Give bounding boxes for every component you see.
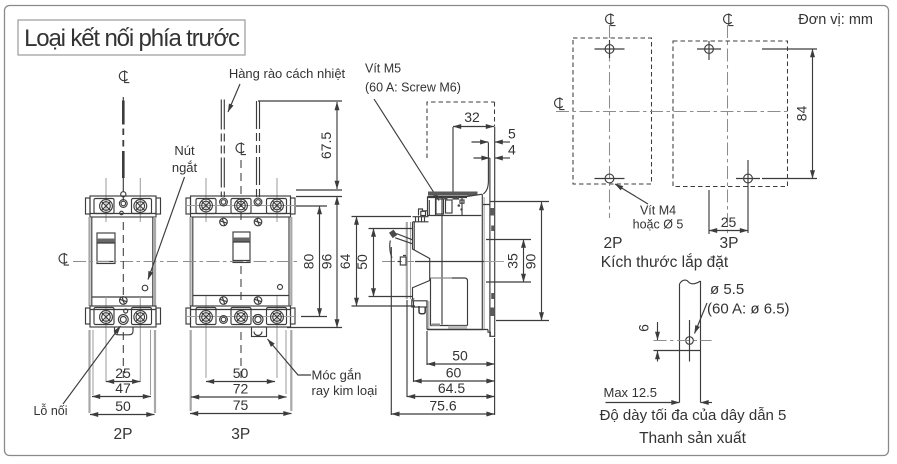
svg-text:Đơn vị: mm: Đơn vị: mm [798, 12, 873, 28]
svg-text:Móc gắn: Móc gắn [312, 368, 362, 383]
svg-text:2P: 2P [604, 235, 623, 252]
svg-text:ngắt: ngắt [172, 160, 198, 175]
svg-text:25: 25 [721, 214, 737, 230]
svg-text:67.5: 67.5 [318, 132, 334, 159]
svg-text:50: 50 [233, 365, 249, 381]
svg-text:96: 96 [319, 254, 335, 270]
svg-text:ray kim loại: ray kim loại [312, 383, 378, 398]
svg-text:Vít M5: Vít M5 [365, 62, 401, 76]
svg-text:90: 90 [523, 254, 539, 270]
svg-text:(60 A: Screw M6): (60 A: Screw M6) [365, 81, 461, 95]
svg-text:Loại kết nối phía trước: Loại kết nối phía trước [24, 25, 240, 52]
svg-text:32: 32 [464, 109, 480, 125]
svg-text:60: 60 [446, 365, 462, 381]
svg-text:Vít M4: Vít M4 [640, 204, 676, 218]
svg-text:Độ dày tối đa của dây dẫn 5: Độ dày tối đa của dây dẫn 5 [600, 407, 787, 424]
svg-text:80: 80 [301, 254, 317, 270]
svg-text:2P: 2P [114, 426, 133, 443]
svg-text:3P: 3P [720, 235, 739, 252]
svg-text:hoặc Ø 5: hoặc Ø 5 [633, 218, 684, 232]
svg-text:Lỗ nối: Lỗ nối [33, 403, 67, 418]
svg-text:75: 75 [233, 397, 249, 413]
svg-text:5: 5 [508, 126, 516, 142]
svg-text:Thanh sản xuất: Thanh sản xuất [639, 430, 747, 447]
svg-text:75.6: 75.6 [429, 398, 456, 414]
svg-text:(60 A: ø 6.5): (60 A: ø 6.5) [707, 301, 790, 318]
svg-text:6: 6 [636, 324, 652, 332]
svg-text:84: 84 [794, 106, 810, 122]
svg-text:25: 25 [115, 365, 131, 381]
svg-text:50: 50 [115, 398, 131, 414]
svg-text:Hàng rào cách nhiệt: Hàng rào cách nhiệt [229, 66, 346, 81]
svg-text:50: 50 [452, 348, 468, 364]
svg-text:64.5: 64.5 [438, 380, 465, 396]
svg-text:50: 50 [354, 254, 370, 270]
svg-text:3P: 3P [231, 426, 250, 443]
svg-text:72: 72 [233, 381, 249, 397]
svg-text:Kích thước lắp đặt: Kích thước lắp đặt [601, 254, 729, 271]
svg-text:35: 35 [505, 253, 521, 269]
svg-text:64: 64 [337, 254, 353, 270]
svg-text:Nút: Nút [174, 143, 195, 158]
svg-text:47: 47 [115, 380, 131, 396]
svg-text:Max 12.5: Max 12.5 [604, 385, 657, 400]
svg-text:4: 4 [508, 142, 516, 158]
svg-text:ø 5.5: ø 5.5 [710, 281, 744, 298]
